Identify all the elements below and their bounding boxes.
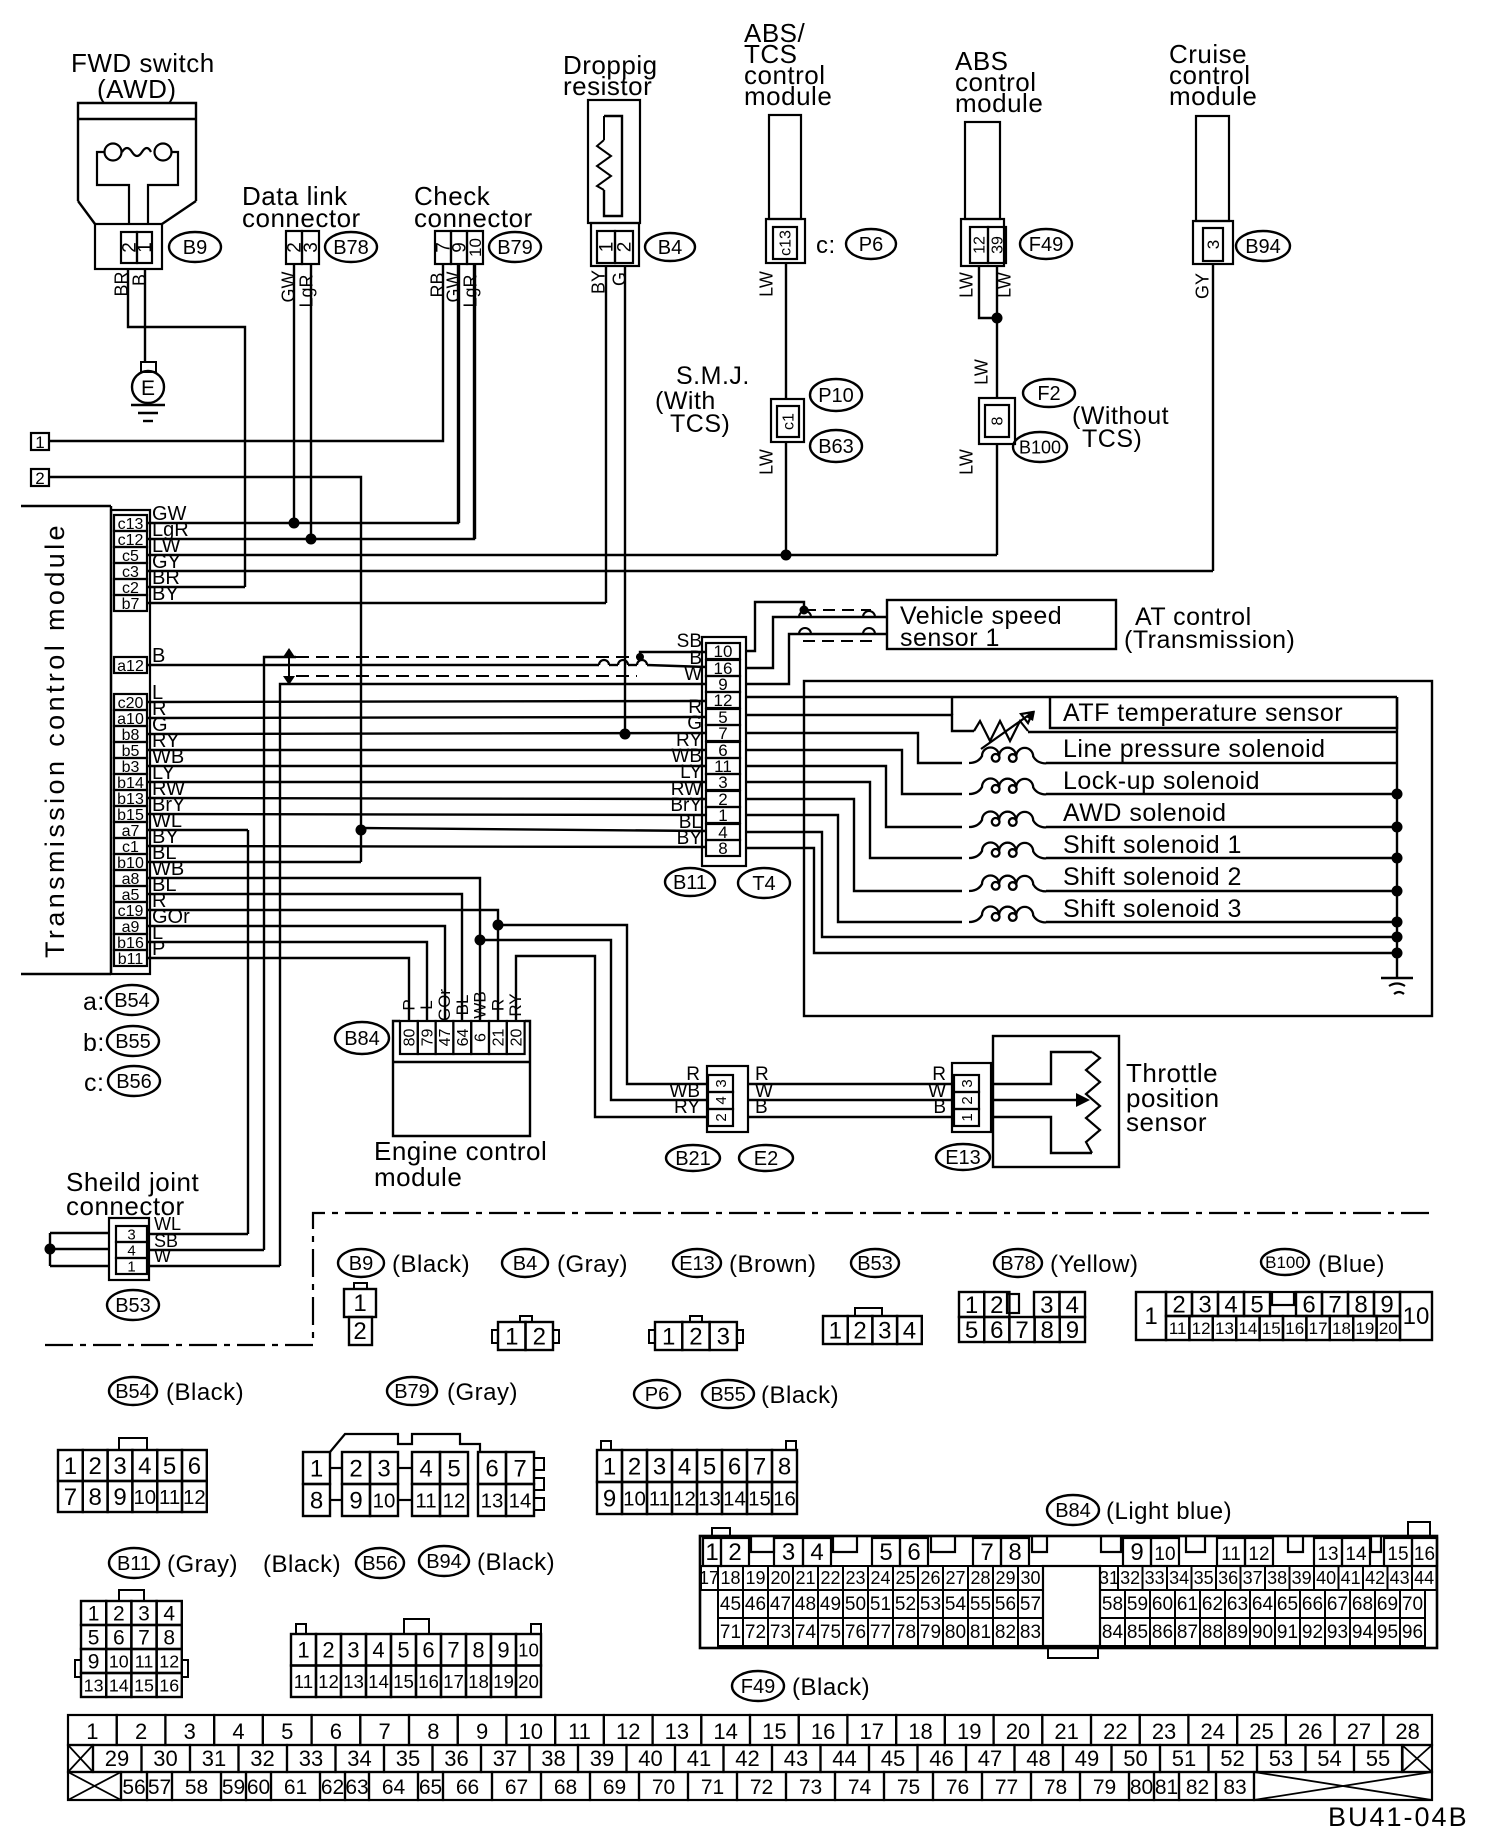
ground symbol transmission [1381,977,1413,979]
svg-text:16: 16 [1414,1544,1435,1565]
svg-text:59: 59 [222,1776,245,1799]
svg-text:3: 3 [1198,1292,1211,1319]
wire WB branch to B21 [480,940,708,1100]
shield joint WL vertical [247,830,249,1234]
svg-text:46: 46 [929,1746,953,1771]
B11 pin 11 [706,758,740,774]
svg-text:2: 2 [135,1719,147,1744]
TCM pin b11 [114,950,147,966]
oval B63 [810,430,862,462]
svg-text:LW: LW [971,359,991,385]
svg-text:51: 51 [870,1594,891,1615]
svg-text:c:: c: [84,1069,104,1097]
wire SB pin10 stub [640,652,706,656]
svg-text:20: 20 [508,1029,525,1047]
svg-text:3: 3 [184,1719,196,1744]
svg-text:72: 72 [745,1622,766,1643]
oval B79 [489,232,541,262]
svg-text:31: 31 [1099,1568,1119,1588]
svg-text:Shift solenoid 2: Shift solenoid 2 [1063,863,1242,891]
svg-text:69: 69 [1377,1594,1398,1615]
svg-text:19: 19 [493,1671,514,1692]
svg-text:WB: WB [471,991,490,1018]
svg-text:41: 41 [687,1746,711,1771]
svg-text:B56: B56 [116,1071,152,1093]
svg-text:42: 42 [735,1746,759,1771]
svg-text:Transmission control module: Transmission control module [40,522,70,958]
svg-text:39: 39 [590,1746,614,1771]
svg-text:10: 10 [1154,1544,1175,1565]
svg-text:F2: F2 [1037,383,1060,405]
svg-text:19: 19 [1355,1319,1374,1338]
svg-text:9: 9 [497,1638,509,1663]
connector B53 pins 3|4|1 [116,1226,147,1242]
oval B9 [169,232,221,262]
svg-text:22: 22 [820,1568,840,1588]
svg-text:B53: B53 [857,1253,893,1275]
svg-text:1: 1 [965,1292,978,1319]
wire L c20 to pin12 [147,701,706,702]
svg-text:4: 4 [713,1096,730,1104]
svg-text:RY: RY [674,1097,700,1118]
wire BL b10 [147,861,361,863]
svg-text:3: 3 [113,1453,126,1480]
connector E13 pins 3|2|1 [954,1075,979,1092]
B11 pin 5 [706,709,740,725]
svg-text:11: 11 [1169,1319,1187,1338]
connector face B11 [119,1590,144,1601]
svg-text:2: 2 [35,469,44,488]
TCM pin b8 [114,726,147,742]
svg-text:13: 13 [698,1488,721,1510]
svg-text:78: 78 [1044,1776,1067,1799]
svg-text:9: 9 [113,1484,126,1511]
svg-text:13: 13 [343,1671,364,1692]
svg-text:48: 48 [795,1594,816,1615]
node box 1 [31,433,49,450]
svg-text:7: 7 [980,1539,993,1566]
svg-text:40: 40 [1316,1568,1336,1588]
connector pins 12|39 [961,219,1004,266]
TCM pin c1 [114,838,147,854]
svg-text:BU41-04B: BU41-04B [1328,1802,1469,1832]
svg-text:20: 20 [518,1671,539,1692]
Vehicle speed sensor 1 box [887,600,1116,649]
svg-text:25: 25 [1249,1719,1273,1744]
wire SMJ LW down [785,263,787,399]
svg-text:LgR: LgR [296,274,316,307]
connector face B78 [959,1292,984,1317]
connector B4 shell [591,223,639,266]
svg-text:95: 95 [1377,1622,1398,1643]
TCM pin b13 [114,790,147,806]
wire B100 down to LW line [996,444,998,555]
svg-text:LW: LW [956,272,976,298]
oval B54 a [106,985,158,1015]
svg-text:2: 2 [990,1292,1003,1319]
ground rail [1396,697,1398,978]
svg-text:12: 12 [443,1490,466,1512]
svg-text:sensor: sensor [1126,1107,1207,1137]
svg-text:14: 14 [713,1719,737,1744]
svg-text:(Light blue): (Light blue) [1106,1498,1232,1525]
svg-text:81: 81 [1155,1776,1178,1799]
wire W B21 to E13 [748,1099,952,1101]
wire pin to solenoid Shift solenoid 3 [746,815,962,922]
svg-text:79: 79 [1093,1776,1116,1799]
svg-text:73: 73 [770,1622,791,1643]
wire B pin16 to sensor [746,617,887,668]
resistor element R1 [604,116,622,216]
dropping resistor body [588,100,640,223]
svg-text:12: 12 [159,1651,179,1671]
svg-text:(Gray): (Gray) [557,1251,628,1278]
svg-text:TCS): TCS) [1082,425,1142,453]
svg-text:1: 1 [662,1324,675,1351]
svg-text:64: 64 [455,1029,472,1047]
B11 pin 3 [706,774,740,790]
svg-text:61: 61 [284,1776,307,1799]
svg-text:1: 1 [603,1454,616,1481]
connector face F49 row3 [68,1772,121,1800]
B11 pin 16 [706,660,740,676]
svg-text:2: 2 [853,1318,866,1345]
wire node1 to check pin7 RB [49,264,443,441]
svg-text:13: 13 [1215,1319,1234,1338]
svg-text:14: 14 [368,1671,389,1692]
B11 pin 12 [706,692,740,708]
wire BL pin4 to rail [746,832,1397,937]
svg-text:3: 3 [653,1454,666,1481]
svg-text:96: 96 [1402,1622,1423,1643]
svg-text:14: 14 [723,1488,746,1510]
svg-text:14: 14 [1238,1319,1257,1338]
svg-text:Lock-up solenoid: Lock-up solenoid [1063,767,1260,795]
connector B78 pins 2|3 [286,231,302,264]
svg-text:4: 4 [1224,1292,1237,1319]
wire WB b3 to pin11 [147,765,706,767]
legend oval B11 [109,1548,159,1578]
B11 pin 6 [706,742,740,758]
svg-text:5: 5 [397,1638,409,1663]
svg-text:67: 67 [1327,1594,1348,1615]
wire node2 to b10/a7 junction [49,477,361,862]
svg-text:10: 10 [109,1651,129,1671]
svg-text:b7: b7 [122,596,140,613]
svg-text:(Gray): (Gray) [167,1551,238,1578]
svg-text:4: 4 [163,1603,175,1626]
wire R B21 to E13 [748,1083,952,1085]
TCM pin b14 [114,774,147,790]
svg-text:5: 5 [879,1539,892,1566]
svg-text:B4: B4 [513,1253,537,1275]
junction a7 x361 [356,825,367,836]
wire coil to rail [1046,793,1397,795]
svg-text:77: 77 [995,1776,1018,1799]
svg-text:4: 4 [419,1456,432,1483]
wire W stub [147,1265,280,1267]
svg-text:B4: B4 [658,237,682,259]
svg-text:a12: a12 [117,658,144,675]
wire a7 junction to pin4 [361,828,706,831]
svg-text:E2: E2 [754,1148,778,1170]
wire G b8 to pin7 [147,733,706,734]
svg-text:13: 13 [665,1719,689,1744]
wire DLC LgR down [310,264,312,539]
wire BY b7 [147,602,606,604]
connector B9 shell [95,224,162,269]
svg-text:GY: GY [1192,273,1212,299]
svg-text:30: 30 [1020,1568,1040,1588]
connector B84 pins [400,1021,418,1054]
svg-text:51: 51 [1172,1746,1196,1771]
svg-text:1: 1 [353,1290,366,1317]
svg-text:59: 59 [1127,1594,1148,1615]
legend oval B4 [502,1249,548,1277]
shield dashed upper [296,656,637,658]
svg-text:7: 7 [513,1456,526,1483]
junction rail y891 [1392,886,1403,897]
svg-text:55: 55 [1366,1746,1390,1771]
legend oval B53 [851,1249,899,1277]
svg-text:47: 47 [770,1594,791,1615]
svg-text:resistor: resistor [563,71,652,101]
svg-text:3: 3 [878,1318,891,1345]
Throttle position sensor box [993,1036,1119,1167]
svg-text:c13: c13 [778,230,795,256]
svg-text:B55: B55 [115,1031,151,1053]
svg-text:52: 52 [1220,1746,1244,1771]
TCM pin a8 [114,870,147,886]
svg-text:(Black): (Black) [263,1551,341,1578]
svg-text:13: 13 [1317,1544,1338,1565]
svg-text:22: 22 [1103,1719,1127,1744]
connector pin 3 [1193,221,1233,264]
svg-text:14: 14 [509,1490,532,1512]
svg-text:76: 76 [946,1776,969,1799]
svg-text:1: 1 [310,1456,323,1483]
shield dashed vss upper [804,609,871,611]
svg-text:28: 28 [970,1568,990,1588]
svg-text:79: 79 [419,1029,436,1047]
junction rail y794 [1392,789,1403,800]
svg-text:56: 56 [995,1594,1016,1615]
svg-text:36: 36 [1218,1568,1238,1588]
svg-text:9: 9 [1130,1539,1143,1566]
connector face B4 [492,1330,498,1343]
svg-text:7: 7 [1328,1292,1341,1319]
wire ATF to rail [1028,731,1397,733]
svg-text:7: 7 [753,1454,766,1481]
svg-text:BY: BY [677,828,703,849]
wire cruise GY down [1212,264,1214,571]
svg-text:75: 75 [897,1776,920,1799]
oval B56 c [108,1066,160,1096]
FWD switch body [78,103,196,201]
svg-text:1: 1 [1144,1303,1157,1330]
svg-text:68: 68 [1352,1594,1373,1615]
svg-text:B100: B100 [1265,1253,1305,1272]
TCM pin c19 [114,902,147,918]
svg-text:23: 23 [845,1568,865,1588]
svg-text:AWD solenoid: AWD solenoid [1063,799,1226,827]
svg-text:16: 16 [773,1488,796,1510]
svg-text:11: 11 [135,1651,154,1671]
svg-text:66: 66 [456,1776,479,1799]
svg-text:86: 86 [1152,1622,1173,1643]
svg-text:44: 44 [832,1746,856,1771]
svg-text:B: B [152,645,165,667]
svg-text:21: 21 [795,1568,815,1588]
svg-text:6: 6 [113,1627,125,1650]
TCM pin b5 [114,742,147,758]
svg-text:13: 13 [84,1675,104,1695]
svg-text:RY: RY [506,993,525,1016]
TCM bracket [21,505,111,507]
TCM pin a9 [114,918,147,934]
B11 pin 10 [706,643,740,659]
svg-text:15: 15 [762,1719,786,1744]
svg-text:8: 8 [472,1638,484,1663]
svg-text:10: 10 [519,1719,543,1744]
svg-text:34: 34 [1169,1568,1189,1588]
svg-text:B79: B79 [394,1381,430,1403]
wire L b16 [147,942,427,1021]
Engine control module body [393,1021,530,1136]
svg-text:9: 9 [476,1719,488,1744]
hop marks [799,611,875,634]
svg-text:(Brown): (Brown) [729,1251,817,1278]
wire B4 BY down [605,266,607,603]
svg-text:47: 47 [978,1746,1002,1771]
svg-text:7: 7 [1015,1317,1028,1344]
junction rail y937 [1392,932,1403,943]
oval B84 [335,1022,389,1054]
legend oval B84 [1047,1495,1099,1525]
svg-text:P6: P6 [645,1384,669,1406]
wire pin to solenoid Line pressure solenoid [746,733,962,763]
svg-text:BL: BL [453,995,472,1016]
svg-text:B78: B78 [1000,1253,1036,1275]
oval E13 [936,1144,990,1170]
svg-text:57: 57 [148,1776,171,1799]
junction rail y858 [1392,853,1403,864]
wire RY to B21 [516,956,708,1117]
legend oval B9 [338,1249,384,1277]
connector face B100 [1136,1292,1166,1340]
svg-text:27: 27 [945,1568,965,1588]
junction rail y922 [1392,917,1403,928]
svg-text:8: 8 [89,1484,102,1511]
svg-text:module: module [955,88,1043,118]
svg-text:2: 2 [349,1456,362,1483]
svg-text:17: 17 [1309,1319,1328,1338]
wire GY c3 [147,570,1213,572]
TCM pin a10 [114,710,147,726]
TCM pin column [111,510,150,974]
legend oval B100 [1261,1249,1309,1275]
svg-text:2: 2 [89,1453,102,1480]
connector face B84 outline [700,1536,1437,1648]
wire GOr a9 [147,926,445,1021]
separator dash-dot border [45,1213,1432,1345]
svg-text:21: 21 [490,1029,507,1047]
svg-text:16: 16 [418,1671,439,1692]
oval B4 [645,233,695,261]
TCM pin c20 [114,694,147,710]
svg-text:8: 8 [427,1719,439,1744]
wire pin to solenoid AWD solenoid [746,766,962,827]
svg-text:Shift solenoid 3: Shift solenoid 3 [1063,895,1242,923]
svg-text:8: 8 [1354,1292,1367,1319]
Cruise control module body [1196,116,1229,221]
face B84 row2 [701,1566,718,1590]
shield twist mark [288,653,290,680]
wire LY b14 to pin3 [147,781,706,783]
svg-text:LW: LW [956,449,976,475]
svg-text:49: 49 [820,1594,841,1615]
svg-text:43: 43 [784,1746,808,1771]
oval P6 [846,229,896,259]
svg-text:4: 4 [810,1539,823,1566]
svg-text:58: 58 [1102,1594,1123,1615]
svg-text:26: 26 [1298,1719,1322,1744]
svg-text:E: E [141,377,155,400]
svg-text:7: 7 [447,1638,459,1663]
wire SB stub [147,1249,264,1251]
svg-text:63: 63 [345,1776,368,1799]
shield joint SB vertical [264,657,296,1250]
svg-text:77: 77 [870,1622,891,1643]
svg-text:50: 50 [1123,1746,1147,1771]
svg-text:5: 5 [1250,1292,1263,1319]
shield dashed vss lower [803,640,874,642]
svg-text:50: 50 [845,1594,866,1615]
face B84 corner tabs [712,1528,730,1536]
oval B94 [1236,231,1290,261]
svg-text:3: 3 [713,1079,730,1087]
svg-text:15: 15 [134,1675,154,1695]
wire ABS pin12 to junction [979,266,997,318]
svg-text:9: 9 [88,1651,100,1674]
svg-text:4: 4 [903,1318,916,1345]
svg-text:B79: B79 [497,237,533,259]
B11 pin 2 [706,791,740,807]
wire WB a8 [147,878,480,1021]
TCM pin b3 [114,758,147,774]
junction rail y827 [1392,822,1403,833]
svg-text:72: 72 [750,1776,773,1799]
svg-text:2: 2 [728,1539,741,1566]
legend oval B79 [387,1377,437,1405]
svg-text:1: 1 [64,1453,77,1480]
connector face B53 [855,1308,882,1316]
ground E circle [132,371,164,403]
svg-text:62: 62 [321,1776,344,1799]
svg-text:b:: b: [83,1029,105,1057]
oval F2 [1023,379,1075,407]
svg-text:40: 40 [638,1746,662,1771]
svg-text:28: 28 [1395,1719,1419,1744]
connector face B55 [601,1441,611,1450]
svg-text:76: 76 [845,1622,866,1643]
svg-text:module: module [1169,81,1257,111]
svg-text:GOr: GOr [435,989,454,1021]
svg-text:2: 2 [113,1603,125,1626]
svg-text:61: 61 [1177,1594,1198,1615]
svg-text:8: 8 [990,416,1007,425]
svg-text:16: 16 [159,1675,179,1695]
